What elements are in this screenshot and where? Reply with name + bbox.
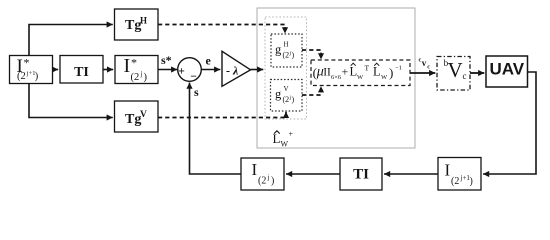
- svg-text:(2: (2: [17, 71, 26, 82]
- svg-text:e: e: [206, 54, 212, 68]
- svg-text:(2: (2: [131, 72, 140, 83]
- wire feedback to summing junction, label s: [190, 83, 242, 175]
- box UAV: [486, 56, 528, 87]
- svg-text:g: g: [275, 43, 282, 57]
- svg-text:−1: −1: [395, 65, 402, 72]
- box I*(2^j+1): [10, 56, 53, 84]
- svg-text:H: H: [140, 16, 147, 26]
- svg-text:W: W: [281, 140, 289, 149]
- dotted sub-box (gain group): [265, 17, 307, 119]
- box I*(2^j): [115, 55, 158, 84]
- svg-text:Tg: Tg: [125, 18, 141, 33]
- svg-text:UAV: UAV: [489, 60, 524, 79]
- svg-text:−: −: [190, 71, 197, 83]
- svg-text:W: W: [357, 74, 364, 81]
- svg-text:): ): [35, 71, 39, 82]
- svg-text:(2: (2: [283, 95, 290, 104]
- wire I*(2^j+1) to TI: [53, 69, 59, 71]
- svg-text:Tg: Tg: [125, 112, 141, 127]
- svg-text:): ): [271, 176, 274, 187]
- svg-text:(2: (2: [283, 51, 290, 60]
- svg-text:): ): [292, 51, 295, 60]
- svg-text:6×6: 6×6: [331, 74, 342, 81]
- box bVc: [437, 57, 470, 91]
- svg-text:V: V: [140, 110, 147, 120]
- svg-text:g: g: [275, 87, 282, 101]
- svg-text:+: +: [289, 130, 294, 139]
- box gH: [271, 34, 302, 67]
- svg-text:*: *: [131, 56, 137, 70]
- box I(2^j) bottom: [241, 158, 284, 190]
- svg-text:s: s: [194, 85, 199, 99]
- svg-text:II: II: [323, 67, 331, 79]
- label Lw hat plus: [273, 130, 294, 149]
- svg-text:(2: (2: [258, 176, 266, 187]
- svg-text:I: I: [445, 161, 451, 180]
- svg-text:I: I: [252, 160, 258, 179]
- svg-text:L: L: [373, 65, 381, 79]
- box TgH: [115, 9, 159, 40]
- svg-text:H: H: [284, 41, 289, 49]
- svg-text:c: c: [427, 65, 430, 71]
- svg-text:I: I: [124, 55, 131, 77]
- svg-text:W: W: [381, 74, 388, 81]
- gain block -lambda: [222, 51, 251, 86]
- wire input branch down to TgV: [29, 84, 113, 118]
- dashed wire TgV to gV: [158, 112, 286, 118]
- wire UAV feedback down to I(2^j+1): [483, 72, 536, 174]
- svg-text:*: *: [24, 56, 30, 70]
- wire gain to interaction group: [251, 69, 264, 71]
- wire input branch up to TgH: [29, 25, 113, 56]
- svg-text:): ): [292, 95, 295, 104]
- outer gray processing box: [257, 8, 415, 148]
- dashed wire gH to pseudoinverse: [302, 50, 321, 59]
- svg-text:): ): [389, 65, 393, 80]
- pseudoinverse formula box: [311, 60, 410, 86]
- box gV: [271, 80, 303, 112]
- svg-text:): ): [470, 176, 473, 187]
- svg-text:+: +: [178, 66, 185, 78]
- wire TI to I*(2^j): [103, 69, 113, 71]
- wire summing junction to gain, label e: [201, 54, 220, 70]
- svg-text:s*: s*: [161, 53, 172, 67]
- svg-text:L: L: [350, 65, 358, 79]
- wire I(2^j+1) to TI bottom: [384, 173, 438, 175]
- box I(2^j+1) bottom: [438, 158, 481, 191]
- svg-text:j: j: [267, 174, 270, 182]
- wire bVc to UAV: [470, 72, 484, 74]
- dashed wire gV to pseudoinverse: [302, 86, 321, 95]
- svg-text:+: +: [342, 65, 349, 79]
- dashed wire TgH to gH: [158, 25, 285, 34]
- wire pseudoinverse to bVc, label cvc: [410, 58, 435, 74]
- svg-text:v: v: [422, 58, 427, 68]
- svg-text:): ): [144, 72, 148, 83]
- svg-text:V: V: [448, 58, 463, 82]
- box TI bottom: [340, 158, 382, 190]
- svg-text:j: j: [140, 70, 143, 78]
- svg-text:(2: (2: [451, 176, 459, 187]
- svg-text:T: T: [365, 64, 370, 73]
- svg-text:TI: TI: [353, 167, 369, 183]
- svg-text:TI: TI: [74, 65, 89, 80]
- summing junction: [178, 58, 202, 83]
- wire I*(2^j) to summing junction, label s*: [158, 53, 177, 70]
- svg-text:c: c: [463, 71, 467, 81]
- svg-text:- λ: - λ: [226, 64, 239, 78]
- svg-text:V: V: [284, 85, 289, 93]
- box TgV: [115, 101, 159, 132]
- box TI: [60, 56, 103, 84]
- wire TI bottom to I(2^j): [286, 173, 340, 175]
